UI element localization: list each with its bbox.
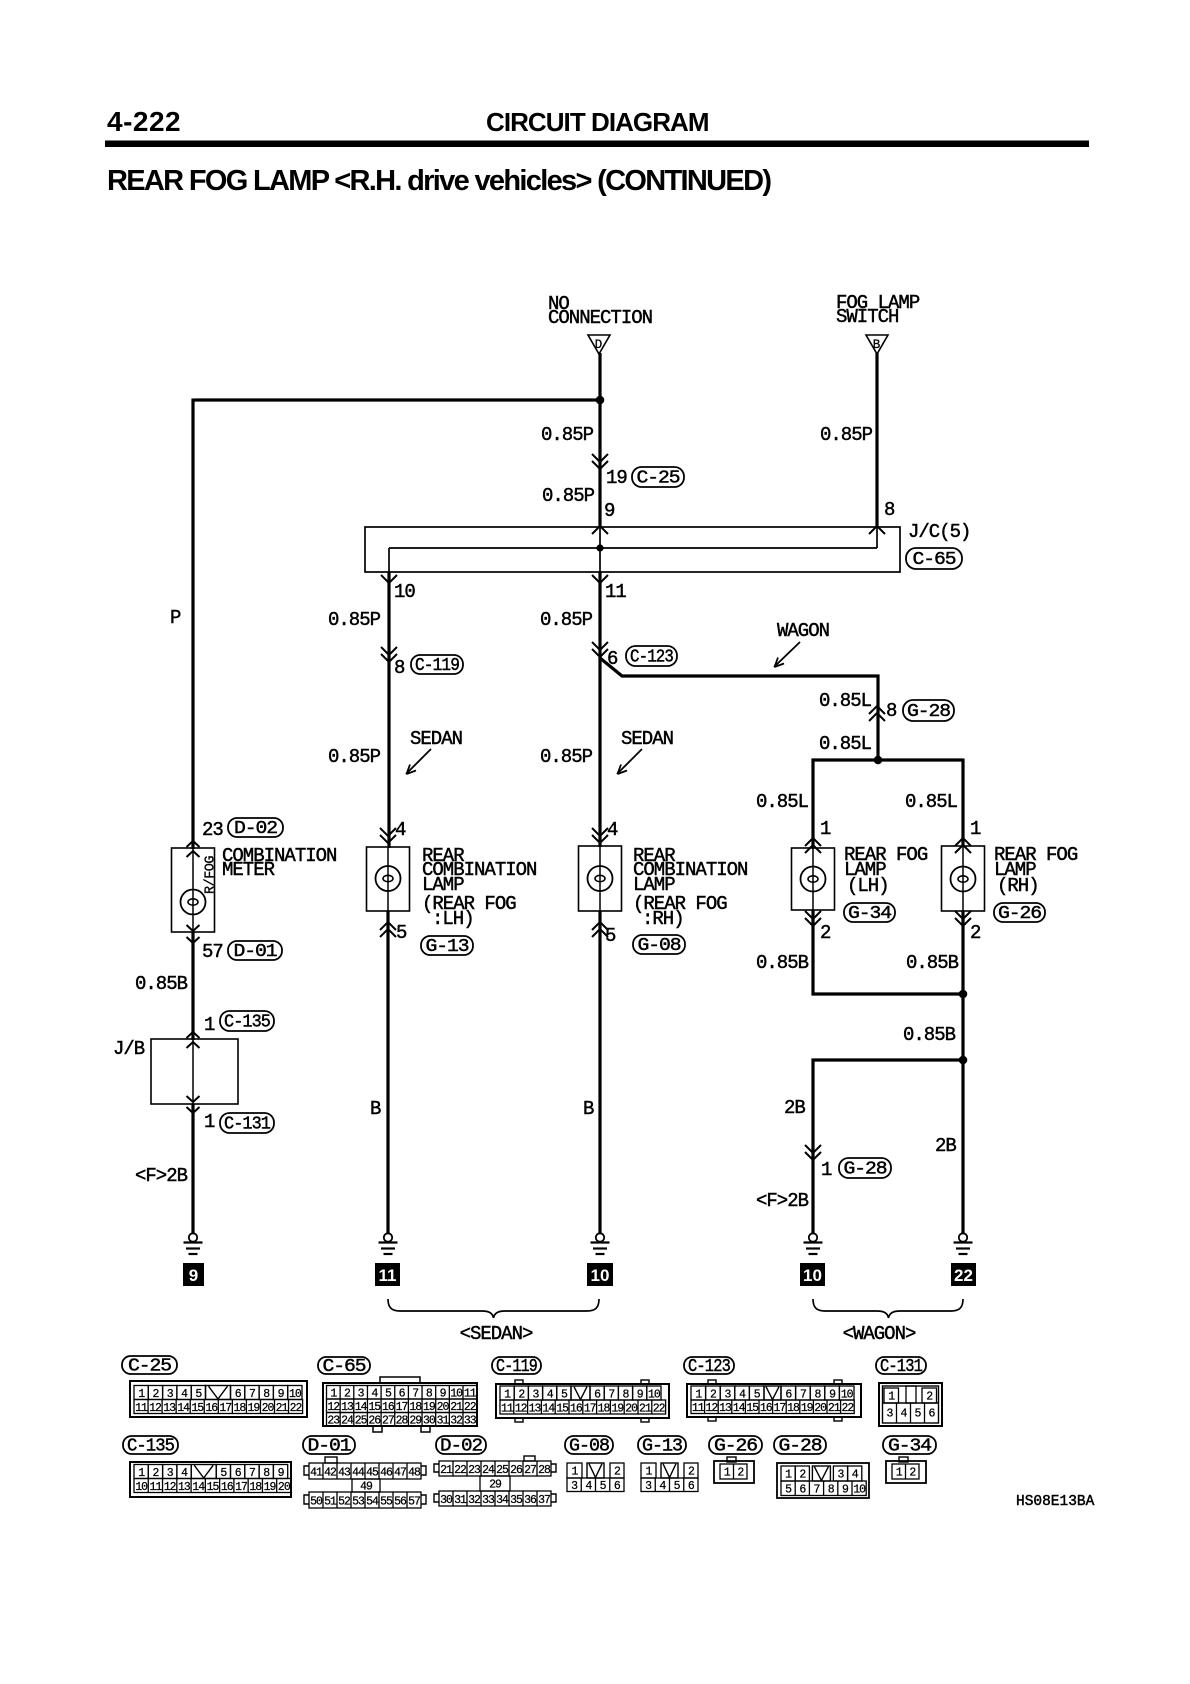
- ground ref box 11: [375, 1263, 400, 1286]
- svg-text:29: 29: [489, 1479, 502, 1492]
- svg-text:23: 23: [327, 1415, 340, 1428]
- svg-text:SEDAN: SEDAN: [410, 728, 462, 750]
- svg-text:29: 29: [409, 1415, 422, 1428]
- arrow out of lamp RH: [592, 922, 608, 937]
- combination meter box: [172, 848, 215, 932]
- svg-text:15: 15: [746, 1402, 759, 1415]
- svg-text:2: 2: [614, 1466, 621, 1479]
- lamp symbol fog LH: [801, 867, 826, 892]
- ground ref box 9: [183, 1263, 204, 1286]
- svg-text:C-25: C-25: [128, 1357, 171, 1377]
- arrow on wire 11: [592, 642, 608, 657]
- svg-text:0.85P: 0.85P: [541, 424, 594, 446]
- connector ref G-28: [903, 700, 954, 722]
- svg-text:0.85L: 0.85L: [819, 733, 872, 755]
- svg-text:41: 41: [310, 1466, 323, 1479]
- svg-text:2: 2: [820, 922, 831, 944]
- svg-text:J/B: J/B: [113, 1038, 145, 1060]
- terminal B (fog lamp switch): [866, 335, 888, 354]
- wagon branch wire 0.85L: [600, 658, 878, 762]
- ground G10 wagon: [804, 1233, 823, 1254]
- label COMBINATION METER: [222, 845, 336, 881]
- svg-text:9: 9: [842, 1484, 849, 1497]
- svg-text:4: 4: [901, 1408, 908, 1421]
- svg-text:18: 18: [598, 1402, 611, 1415]
- svg-text:G-28: G-28: [844, 1160, 887, 1180]
- svg-text:10: 10: [591, 1266, 610, 1285]
- svg-text:33: 33: [482, 1494, 495, 1507]
- svg-text:D-02: D-02: [234, 819, 277, 839]
- brace SEDAN: [388, 1299, 599, 1318]
- svg-text:21: 21: [440, 1464, 453, 1477]
- svg-text:27: 27: [524, 1464, 536, 1477]
- svg-text:C-131: C-131: [224, 1115, 270, 1135]
- svg-text:10: 10: [135, 1481, 148, 1494]
- svg-text:47: 47: [394, 1466, 406, 1479]
- arrow into rear fog lamp LH: [805, 838, 821, 853]
- wire 0.85B fog RH down to ground: [961, 911, 964, 1233]
- svg-text:16: 16: [205, 1402, 218, 1415]
- svg-text:9: 9: [189, 1266, 198, 1285]
- svg-text:P: P: [170, 607, 181, 629]
- svg-text:31: 31: [454, 1494, 467, 1507]
- svg-text:20: 20: [814, 1402, 827, 1415]
- svg-text:C-119: C-119: [496, 1357, 537, 1377]
- svg-text:D-01: D-01: [308, 1437, 351, 1457]
- arrow out of fog lamp RH: [955, 911, 971, 926]
- arrow out of combination meter: [187, 925, 200, 943]
- svg-text:0.85B: 0.85B: [906, 952, 959, 974]
- wire 0.85B fog LH down: [813, 910, 963, 994]
- svg-text:8: 8: [394, 657, 405, 679]
- svg-text:C-123: C-123: [630, 648, 673, 668]
- svg-text:15: 15: [191, 1402, 204, 1415]
- svg-text:25: 25: [496, 1464, 509, 1477]
- svg-text:0.85P: 0.85P: [328, 609, 381, 631]
- svg-text:21: 21: [639, 1402, 652, 1415]
- connector ref C-131: [220, 1113, 274, 1135]
- svg-text:8: 8: [884, 499, 895, 521]
- svg-text:C-25: C-25: [637, 469, 680, 489]
- svg-text:G-34: G-34: [848, 904, 891, 924]
- svg-text:27: 27: [382, 1415, 394, 1428]
- svg-text:0.85P: 0.85P: [540, 746, 593, 768]
- svg-text:21: 21: [276, 1402, 289, 1415]
- arrow into rear fog lamp RH: [955, 838, 971, 853]
- svg-text:42: 42: [324, 1466, 337, 1479]
- connector ref C-65: [906, 548, 962, 570]
- svg-text:CONNECTION: CONNECTION: [548, 307, 652, 329]
- svg-text:0.85P: 0.85P: [328, 746, 381, 768]
- arrow into lamp LH: [380, 828, 396, 843]
- svg-text:12: 12: [149, 1402, 162, 1415]
- label NO CONNECTION: [548, 293, 652, 329]
- svg-text:2: 2: [737, 1467, 744, 1480]
- ground G10 sedan: [591, 1233, 610, 1254]
- svg-text:9: 9: [604, 500, 615, 522]
- ground ref box 10 wagon: [800, 1263, 825, 1286]
- svg-text:26: 26: [510, 1464, 523, 1477]
- connector D-02 pinout: [434, 1436, 556, 1507]
- svg-text:0.85P: 0.85P: [542, 485, 595, 507]
- svg-text:0.85B: 0.85B: [756, 952, 809, 974]
- label SEDAN with arrow (right): [617, 728, 673, 774]
- svg-text:19: 19: [606, 467, 627, 489]
- svg-text:1: 1: [821, 1159, 832, 1181]
- connector ref D-02: [228, 818, 283, 839]
- brace WAGON: [813, 1299, 963, 1318]
- arrow into lamp RH: [592, 828, 608, 843]
- connector C-131 pinout: [876, 1357, 942, 1426]
- svg-text:1: 1: [820, 818, 831, 840]
- svg-text:26: 26: [368, 1415, 381, 1428]
- lamp symbol fog RH: [951, 867, 976, 892]
- svg-text:<F>2B: <F>2B: [756, 1190, 809, 1212]
- svg-text:14: 14: [177, 1402, 190, 1415]
- wagon wire split horizontal: [812, 758, 964, 761]
- label FOG LAMP SWITCH: [836, 292, 920, 328]
- junction node inside J/C: [596, 544, 603, 551]
- svg-text:0.85L: 0.85L: [819, 690, 872, 712]
- svg-text:18: 18: [249, 1481, 262, 1494]
- arrow out of J/B: [187, 1096, 200, 1113]
- svg-text:B: B: [583, 1098, 594, 1120]
- svg-text:0.85L: 0.85L: [905, 791, 958, 813]
- svg-text::RH): :RH): [642, 908, 684, 930]
- connector ref G-13: [421, 936, 473, 957]
- svg-text:7: 7: [814, 1484, 820, 1497]
- svg-text:22: 22: [290, 1402, 303, 1415]
- ground ref box 10: [587, 1263, 613, 1286]
- svg-text:1: 1: [204, 1111, 215, 1133]
- svg-text:28: 28: [396, 1415, 409, 1428]
- svg-text:37: 37: [538, 1494, 550, 1507]
- rear combination lamp LH box: [367, 847, 410, 911]
- rear combination lamp RH box: [579, 846, 622, 911]
- arrow on wagon wire: [869, 706, 885, 721]
- svg-text:8: 8: [886, 700, 897, 722]
- svg-text:23: 23: [202, 819, 223, 841]
- arrow into J/C pin 9: [592, 526, 608, 534]
- svg-text:14: 14: [192, 1481, 205, 1494]
- svg-text:13: 13: [163, 1402, 176, 1415]
- svg-text:19: 19: [248, 1402, 261, 1415]
- svg-text:50: 50: [310, 1495, 323, 1508]
- svg-text:13: 13: [719, 1402, 732, 1415]
- svg-text:B: B: [370, 1098, 381, 1120]
- svg-text:12: 12: [515, 1402, 528, 1415]
- svg-text:10: 10: [394, 581, 415, 603]
- svg-text:17: 17: [584, 1402, 596, 1415]
- svg-text:17: 17: [219, 1402, 231, 1415]
- svg-text:C-123: C-123: [688, 1357, 730, 1377]
- arrow out of fog lamp LH: [805, 911, 821, 926]
- svg-text:11: 11: [605, 581, 626, 603]
- arrow on wire D: [592, 454, 608, 469]
- junction node at D wire: [596, 396, 605, 405]
- svg-text:G-28: G-28: [779, 1437, 822, 1457]
- svg-text:14: 14: [542, 1402, 555, 1415]
- svg-text:3: 3: [838, 1469, 845, 1482]
- svg-text:WAGON: WAGON: [777, 620, 829, 642]
- terminal D (no connection): [588, 335, 610, 354]
- svg-text:24: 24: [482, 1464, 495, 1477]
- connector G-34 pinout: [883, 1436, 936, 1483]
- svg-text:16: 16: [221, 1481, 234, 1494]
- svg-text:G-28: G-28: [907, 702, 950, 722]
- svg-text:45: 45: [366, 1466, 379, 1479]
- svg-text:J/C(5): J/C(5): [908, 521, 970, 543]
- svg-text:2: 2: [688, 1466, 695, 1479]
- wire inside J/B: [192, 1040, 194, 1104]
- svg-text:1: 1: [724, 1467, 731, 1480]
- svg-text:1: 1: [888, 1391, 895, 1404]
- svg-text:<WAGON>: <WAGON>: [843, 1323, 916, 1345]
- connector ref C-25: [632, 467, 684, 489]
- svg-text:5: 5: [605, 925, 616, 947]
- svg-text:C-119: C-119: [415, 656, 459, 676]
- svg-text:G-08: G-08: [569, 1437, 609, 1457]
- connector C-123 pinout: [684, 1357, 861, 1421]
- junction node 2B: [959, 1056, 968, 1065]
- svg-text:21: 21: [828, 1402, 841, 1415]
- svg-text:56: 56: [394, 1495, 407, 1508]
- wire 0.85L to rear fog lamp LH: [811, 759, 814, 849]
- svg-text:0.85P: 0.85P: [540, 609, 593, 631]
- wire inside combination meter: [192, 848, 194, 932]
- svg-text:C-131: C-131: [880, 1357, 922, 1377]
- label SEDAN with arrow (left): [406, 728, 462, 774]
- wire inside lamp RH: [599, 846, 601, 911]
- label WAGON with arrow: [774, 620, 829, 667]
- svg-text:34: 34: [496, 1494, 509, 1507]
- wire 0.85P pin11 down to rear combination lamp RH: [598, 572, 601, 847]
- svg-text:4: 4: [395, 819, 406, 841]
- svg-text:22: 22: [954, 1266, 973, 1285]
- svg-text:23: 23: [468, 1464, 481, 1477]
- svg-text:17: 17: [235, 1481, 247, 1494]
- svg-text:2: 2: [799, 1469, 806, 1482]
- svg-text:D-01: D-01: [234, 942, 277, 962]
- ground ref box 22: [951, 1263, 976, 1286]
- wire B sedan RH to ground: [598, 911, 601, 1233]
- ground G11: [379, 1233, 398, 1254]
- svg-text:48: 48: [408, 1466, 421, 1479]
- svg-text:17: 17: [773, 1402, 785, 1415]
- svg-text:11: 11: [149, 1481, 162, 1494]
- svg-text::LH): :LH): [432, 908, 474, 930]
- svg-text:<SEDAN>: <SEDAN>: [460, 1323, 533, 1345]
- rear fog lamp RH box: [942, 846, 985, 911]
- wire <F>2B to ground: [191, 1104, 194, 1233]
- svg-text:13: 13: [178, 1481, 191, 1494]
- junction block J/B box: [151, 1039, 238, 1104]
- connector ref D-01: [228, 941, 282, 962]
- svg-text:C-135: C-135: [127, 1437, 174, 1457]
- svg-text:5: 5: [785, 1484, 792, 1497]
- svg-text:10: 10: [803, 1266, 822, 1285]
- svg-text:C-65: C-65: [913, 550, 956, 570]
- arrow on wire to G-28 ground: [805, 1145, 821, 1160]
- svg-text:6: 6: [929, 1408, 936, 1421]
- svg-text:44: 44: [352, 1466, 365, 1479]
- svg-text:51: 51: [324, 1495, 337, 1508]
- svg-text:1: 1: [785, 1469, 792, 1482]
- svg-text:15: 15: [207, 1481, 220, 1494]
- svg-text:19: 19: [264, 1481, 277, 1494]
- connector C-119 pinout: [492, 1357, 669, 1422]
- connector C-25 pinout: [122, 1356, 307, 1417]
- svg-text:METER: METER: [222, 859, 275, 881]
- ground G22: [954, 1233, 973, 1254]
- connector ref C-119: [411, 655, 463, 676]
- lamp R/FOG in combination meter: [181, 890, 206, 915]
- wire horizontal 0.85P to combination meter branch: [195, 398, 601, 401]
- svg-text:53: 53: [352, 1495, 365, 1508]
- svg-text:REAR FOG LAMP <R.H. drive vehi: REAR FOG LAMP <R.H. drive vehicles> (CON…: [107, 165, 772, 197]
- connector ref G-34: [844, 903, 895, 924]
- svg-text:G-34: G-34: [888, 1437, 931, 1457]
- wire from terminal B down to J/C: [875, 353, 878, 528]
- header rule: [105, 141, 1089, 148]
- junction node wagon split: [874, 756, 883, 765]
- svg-text:B: B: [873, 338, 881, 352]
- connector G-08 pinout: [565, 1436, 624, 1493]
- svg-text:C-65: C-65: [323, 1357, 366, 1377]
- connector ref G-08: [633, 935, 685, 956]
- svg-text:30: 30: [440, 1494, 453, 1507]
- svg-text:G-13: G-13: [642, 1437, 682, 1457]
- lamp symbol LH: [376, 866, 401, 891]
- connector C-65 pinout: [318, 1357, 477, 1432]
- junction node 0.85B: [959, 990, 968, 999]
- svg-text:3: 3: [887, 1408, 894, 1421]
- svg-text:11: 11: [501, 1402, 514, 1415]
- svg-text:52: 52: [338, 1495, 351, 1508]
- svg-text:G-08: G-08: [638, 936, 681, 956]
- ground G9: [184, 1233, 203, 1254]
- lamp symbol RH: [588, 866, 613, 891]
- svg-text:C-135: C-135: [224, 1013, 270, 1033]
- arrow out of lamp LH: [380, 922, 396, 937]
- svg-text:12: 12: [164, 1481, 177, 1494]
- wire inside fog lamp LH: [812, 848, 814, 910]
- svg-text:4-222: 4-222: [107, 106, 181, 137]
- svg-text:1: 1: [896, 1467, 903, 1480]
- svg-text:43: 43: [338, 1466, 351, 1479]
- connector D-01 pinout: [303, 1436, 426, 1508]
- wire B sedan LH to ground: [386, 911, 389, 1233]
- svg-text:D: D: [595, 338, 603, 352]
- svg-text:0.85P: 0.85P: [820, 424, 873, 446]
- svg-text:32: 32: [450, 1415, 463, 1428]
- svg-text:(LH): (LH): [847, 875, 889, 897]
- svg-text:35: 35: [510, 1494, 523, 1507]
- svg-text:4: 4: [607, 819, 618, 841]
- svg-text:24: 24: [341, 1415, 354, 1428]
- svg-text:1: 1: [970, 818, 981, 840]
- svg-text:19: 19: [801, 1402, 814, 1415]
- rear fog lamp LH box: [792, 848, 835, 910]
- svg-text:6: 6: [799, 1484, 806, 1497]
- svg-text:2B: 2B: [935, 1135, 956, 1157]
- svg-text:22: 22: [454, 1464, 467, 1477]
- svg-text:SWITCH: SWITCH: [836, 306, 898, 328]
- svg-text:HS08E13BA: HS08E13BA: [1016, 1494, 1095, 1510]
- svg-text:19: 19: [611, 1402, 624, 1415]
- svg-text:54: 54: [366, 1495, 379, 1508]
- svg-text:18: 18: [233, 1402, 246, 1415]
- arrow into J/C pin 8: [869, 526, 885, 534]
- svg-text:11: 11: [692, 1402, 705, 1415]
- svg-text:18: 18: [787, 1402, 800, 1415]
- svg-text:12: 12: [705, 1402, 718, 1415]
- label REAR COMBINATION LAMP (REAR FOG :RH): [633, 845, 747, 930]
- svg-text:20: 20: [278, 1481, 291, 1494]
- svg-text:14: 14: [733, 1402, 746, 1415]
- wire from terminal D down to J/C: [598, 353, 601, 528]
- wire inside lamp LH: [387, 847, 389, 911]
- connector G-28 pinout: [774, 1436, 869, 1498]
- svg-text:15: 15: [556, 1402, 569, 1415]
- connector C-135 pinout: [123, 1436, 291, 1497]
- svg-text:16: 16: [760, 1402, 773, 1415]
- svg-text:11: 11: [379, 1266, 397, 1285]
- wagon ground branch wire 2B: [813, 1060, 963, 1233]
- connector G-13 pinout: [638, 1436, 698, 1493]
- wire 0.85P pin10 down to rear combination lamp LH: [387, 572, 390, 848]
- svg-text:G-26: G-26: [714, 1437, 757, 1457]
- connector ref G-28: [839, 1158, 891, 1180]
- arrow on wire 10: [381, 647, 397, 662]
- svg-text:57: 57: [408, 1495, 420, 1508]
- svg-text:33: 33: [464, 1415, 477, 1428]
- svg-text:1: 1: [572, 1466, 579, 1479]
- junction connector J/C(5) box: [365, 527, 900, 572]
- svg-text:16: 16: [570, 1402, 583, 1415]
- svg-text:R/FOG: R/FOG: [204, 856, 219, 894]
- connector ref C-123: [626, 646, 677, 668]
- svg-text:4: 4: [852, 1469, 859, 1482]
- svg-text:G-13: G-13: [426, 937, 469, 957]
- svg-text:22: 22: [653, 1402, 666, 1415]
- svg-text:1: 1: [204, 1014, 215, 1036]
- connector G-26 pinout: [709, 1436, 762, 1483]
- wire 0.85L to rear fog lamp RH: [961, 759, 964, 847]
- svg-text:22: 22: [841, 1402, 854, 1415]
- svg-text:5: 5: [915, 1408, 922, 1421]
- svg-text:20: 20: [625, 1402, 638, 1415]
- svg-text:CIRCUIT DIAGRAM: CIRCUIT DIAGRAM: [486, 107, 710, 137]
- svg-text:55: 55: [380, 1495, 393, 1508]
- svg-text:13: 13: [529, 1402, 542, 1415]
- svg-text:D-02: D-02: [440, 1437, 482, 1457]
- svg-text:0.85L: 0.85L: [756, 791, 809, 813]
- svg-text:11: 11: [135, 1402, 148, 1415]
- label REAR FOG LAMP (LH): [844, 844, 928, 897]
- svg-text:0.85B: 0.85B: [903, 1024, 956, 1046]
- svg-text:SEDAN: SEDAN: [621, 728, 673, 750]
- connector ref G-26: [994, 903, 1045, 924]
- svg-text:2: 2: [926, 1391, 933, 1404]
- svg-text:G-26: G-26: [998, 904, 1041, 924]
- svg-text:20: 20: [262, 1402, 275, 1415]
- wire inside fog lamp RH: [962, 846, 964, 911]
- arrow out of J/C pin 11: [592, 575, 608, 583]
- svg-text:<F>2B: <F>2B: [135, 1165, 188, 1187]
- svg-text:2: 2: [970, 922, 981, 944]
- svg-text:10: 10: [853, 1484, 866, 1497]
